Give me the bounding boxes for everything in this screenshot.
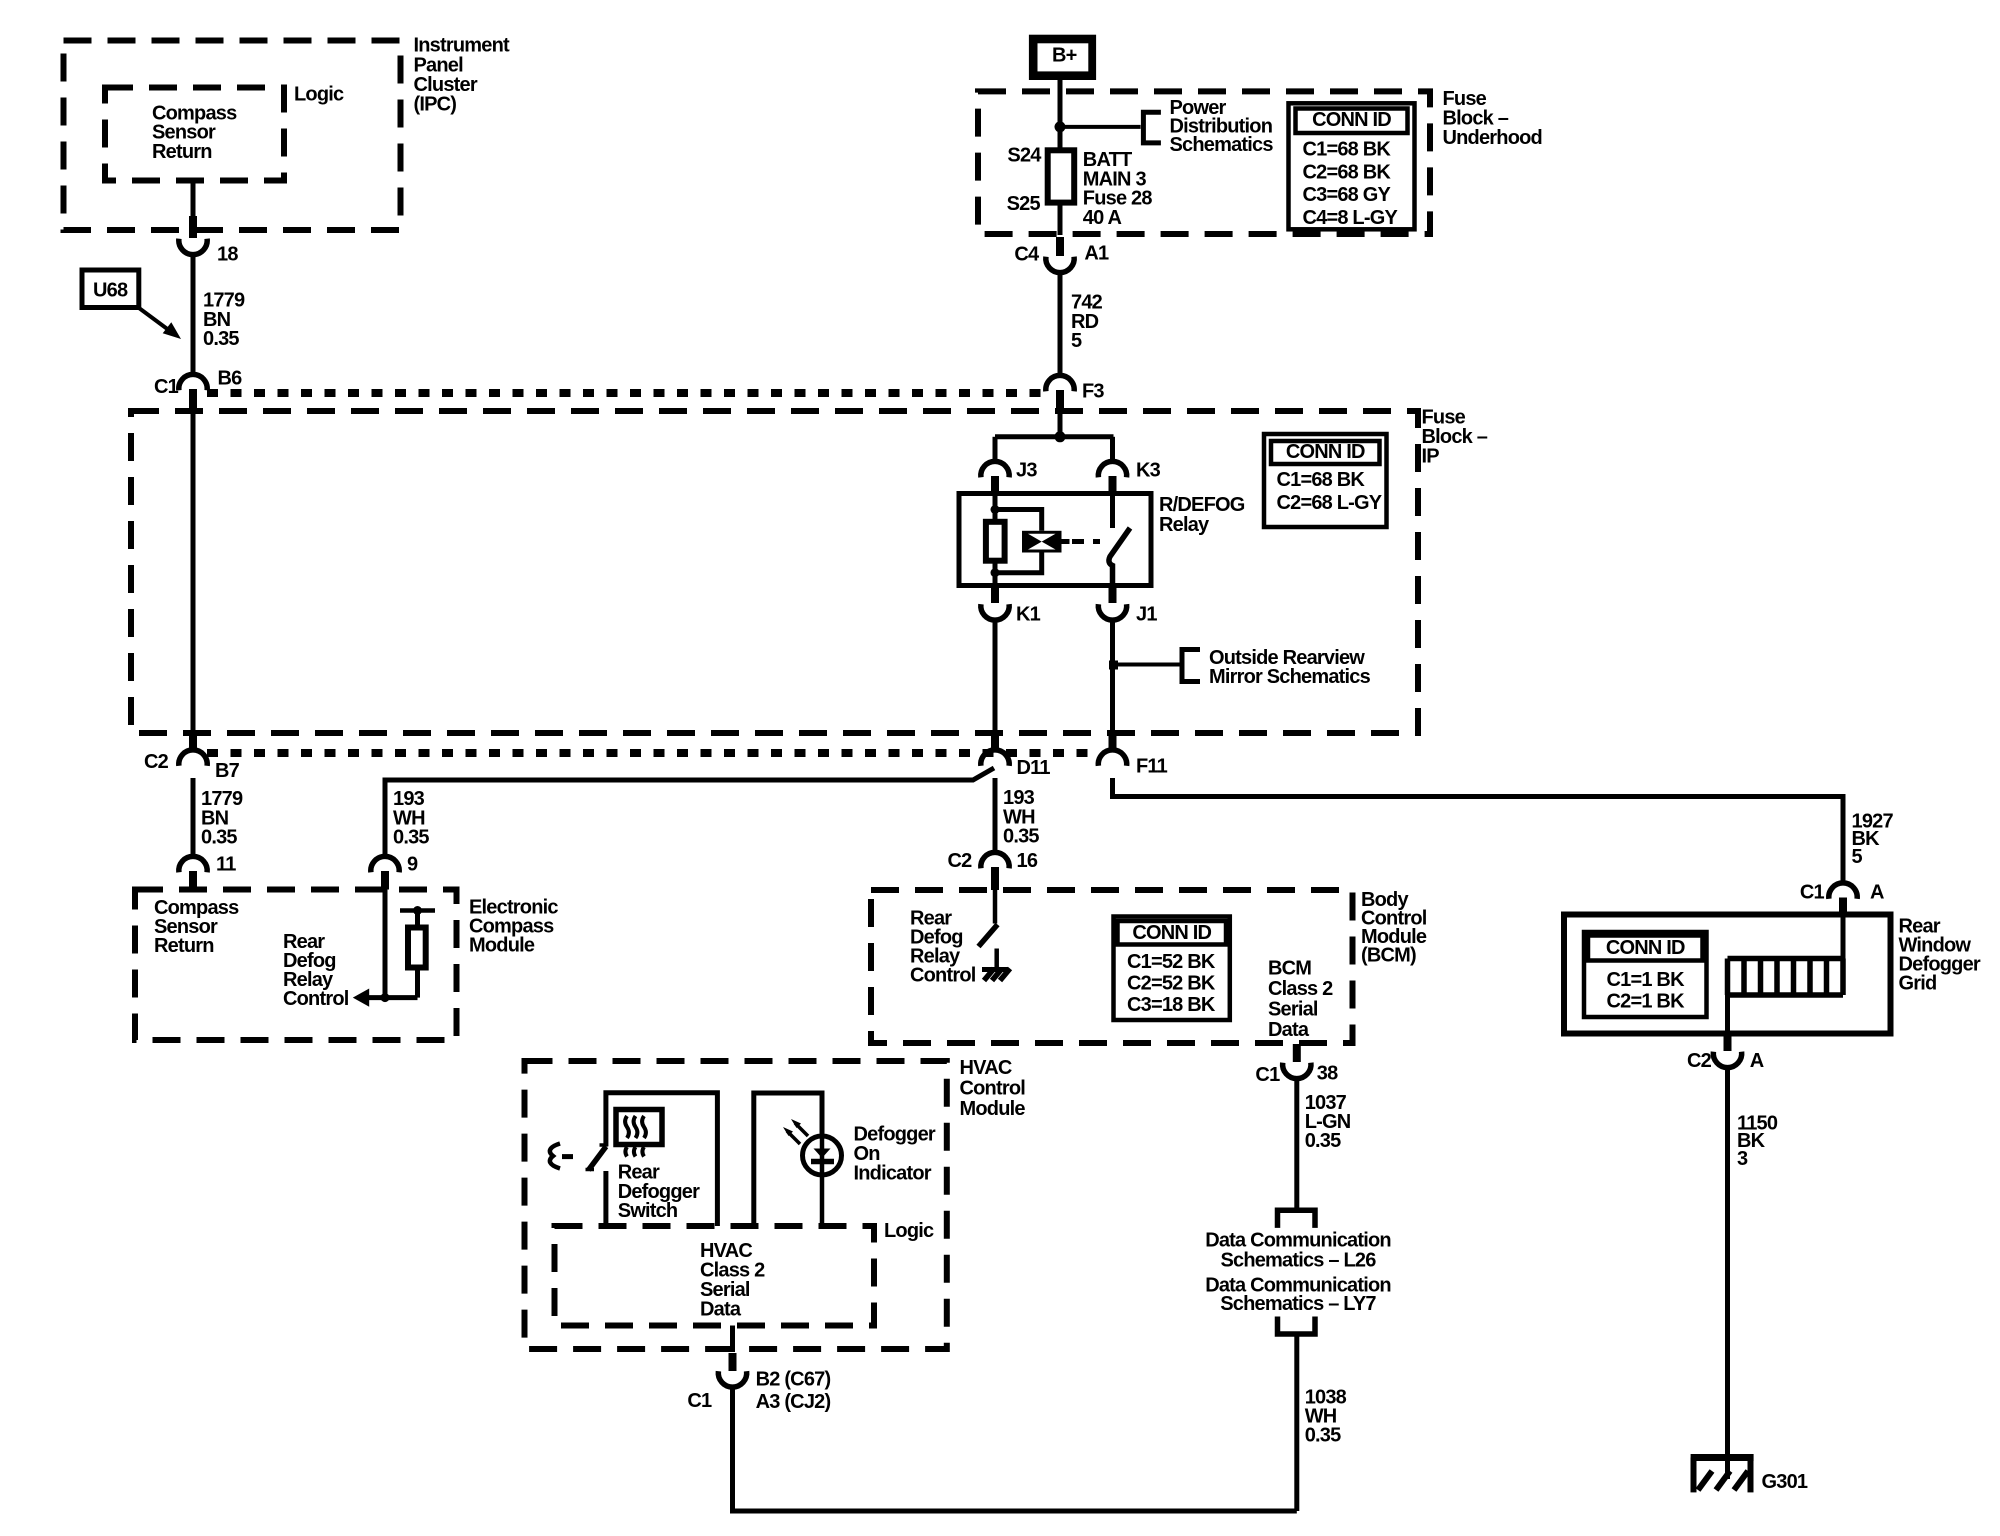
svg-text:Module: Module	[469, 935, 535, 957]
svg-text:Return: Return	[154, 935, 214, 957]
svg-text:5: 5	[1852, 846, 1863, 868]
svg-text:S25: S25	[1007, 193, 1041, 215]
svg-text:Relay: Relay	[1159, 514, 1210, 536]
svg-text:Data Communication: Data Communication	[1205, 1230, 1391, 1252]
svg-text:Cluster: Cluster	[414, 74, 478, 96]
svg-text:Logic: Logic	[294, 84, 344, 106]
svg-text:J1: J1	[1136, 604, 1157, 626]
svg-text:C4=8 L-GY: C4=8 L-GY	[1303, 207, 1399, 229]
svg-text:C2=68 L-GY: C2=68 L-GY	[1277, 492, 1383, 514]
svg-text:C1: C1	[154, 376, 179, 398]
svg-text:F11: F11	[1136, 756, 1168, 778]
svg-text:D11: D11	[1017, 757, 1051, 779]
svg-text:CONN ID: CONN ID	[1132, 922, 1211, 944]
svg-text:0.35: 0.35	[1003, 826, 1039, 848]
svg-text:C2=68 BK: C2=68 BK	[1303, 161, 1392, 183]
svg-text:0.35: 0.35	[1305, 1425, 1341, 1447]
svg-text:Class 2: Class 2	[1268, 978, 1333, 1000]
svg-text:C1: C1	[1255, 1064, 1280, 1086]
svg-text:Control: Control	[960, 1078, 1026, 1100]
svg-text:Module: Module	[960, 1098, 1026, 1120]
svg-text:C1=1 BK: C1=1 BK	[1607, 969, 1686, 991]
svg-text:Indicator: Indicator	[854, 1163, 932, 1185]
svg-text:B7: B7	[215, 760, 240, 782]
svg-text:(BCM): (BCM)	[1361, 945, 1416, 967]
svg-text:HVAC: HVAC	[960, 1057, 1012, 1079]
svg-text:0.35: 0.35	[201, 827, 237, 849]
svg-text:C3=18 BK: C3=18 BK	[1127, 994, 1216, 1016]
svg-text:C1: C1	[1800, 882, 1825, 904]
svg-text:5: 5	[1071, 330, 1082, 352]
svg-text:Data: Data	[1268, 1019, 1310, 1041]
svg-text:9: 9	[407, 854, 418, 876]
svg-text:Mirror Schematics: Mirror Schematics	[1209, 666, 1371, 688]
svg-text:S24: S24	[1007, 145, 1042, 167]
svg-text:Schematics: Schematics	[1170, 134, 1274, 156]
svg-text:Grid: Grid	[1899, 973, 1937, 995]
svg-text:(IPC): (IPC)	[414, 94, 457, 116]
svg-text:F3: F3	[1082, 381, 1104, 403]
svg-text:0.35: 0.35	[1305, 1130, 1341, 1152]
svg-text:C2=1 BK: C2=1 BK	[1607, 991, 1686, 1013]
svg-text:C1=68 BK: C1=68 BK	[1277, 469, 1366, 491]
svg-text:Instrument: Instrument	[414, 35, 510, 57]
svg-text:Return: Return	[152, 141, 212, 163]
svg-text:K1: K1	[1016, 604, 1041, 626]
svg-text:C1=52 BK: C1=52 BK	[1127, 951, 1216, 973]
svg-text:0.35: 0.35	[203, 328, 239, 350]
svg-text:CONN ID: CONN ID	[1606, 937, 1685, 959]
svg-text:A: A	[1870, 882, 1884, 904]
svg-text:C2: C2	[948, 850, 973, 872]
svg-text:A1: A1	[1084, 243, 1109, 265]
svg-text:B+: B+	[1052, 44, 1077, 66]
svg-text:C4: C4	[1014, 244, 1040, 266]
svg-text:18: 18	[217, 244, 238, 266]
svg-text:A: A	[1750, 1050, 1764, 1072]
svg-text:C2: C2	[144, 751, 169, 773]
svg-text:B6: B6	[218, 368, 243, 390]
svg-text:BCM: BCM	[1268, 958, 1311, 980]
svg-text:IP: IP	[1422, 446, 1440, 468]
svg-text:Switch: Switch	[618, 1200, 678, 1222]
svg-text:3: 3	[1737, 1148, 1748, 1170]
svg-text:U68: U68	[93, 280, 128, 302]
svg-text:A3 (CJ2): A3 (CJ2)	[756, 1391, 831, 1413]
svg-text:R/DEFOG: R/DEFOG	[1159, 494, 1245, 516]
svg-text:CONN ID: CONN ID	[1286, 441, 1365, 463]
svg-text:Schematics – L26: Schematics – L26	[1220, 1249, 1376, 1271]
svg-text:Logic: Logic	[884, 1220, 934, 1242]
svg-text:B2 (C67): B2 (C67)	[756, 1369, 831, 1391]
svg-text:16: 16	[1017, 850, 1038, 872]
svg-text:Serial: Serial	[1268, 999, 1318, 1021]
svg-text:G301: G301	[1762, 1471, 1808, 1493]
svg-text:C1: C1	[687, 1390, 712, 1412]
svg-text:Schematics – LY7: Schematics – LY7	[1220, 1293, 1376, 1315]
svg-text:C2: C2	[1687, 1050, 1712, 1072]
svg-text:0.35: 0.35	[393, 827, 429, 849]
svg-text:K3: K3	[1136, 460, 1161, 482]
svg-text:40 A: 40 A	[1083, 207, 1122, 229]
svg-text:C3=68 GY: C3=68 GY	[1303, 184, 1392, 206]
svg-text:38: 38	[1317, 1063, 1338, 1085]
svg-text:C2=52 BK: C2=52 BK	[1127, 973, 1216, 995]
svg-text:J3: J3	[1016, 460, 1037, 482]
svg-text:CONN ID: CONN ID	[1312, 109, 1391, 131]
svg-text:Control: Control	[283, 988, 349, 1010]
svg-text:Control: Control	[910, 965, 976, 987]
svg-text:Underhood: Underhood	[1443, 127, 1542, 149]
svg-text:C1=68 BK: C1=68 BK	[1303, 139, 1392, 161]
svg-text:Data: Data	[700, 1298, 742, 1320]
svg-text:Panel: Panel	[414, 54, 464, 76]
svg-text:11: 11	[216, 854, 236, 876]
